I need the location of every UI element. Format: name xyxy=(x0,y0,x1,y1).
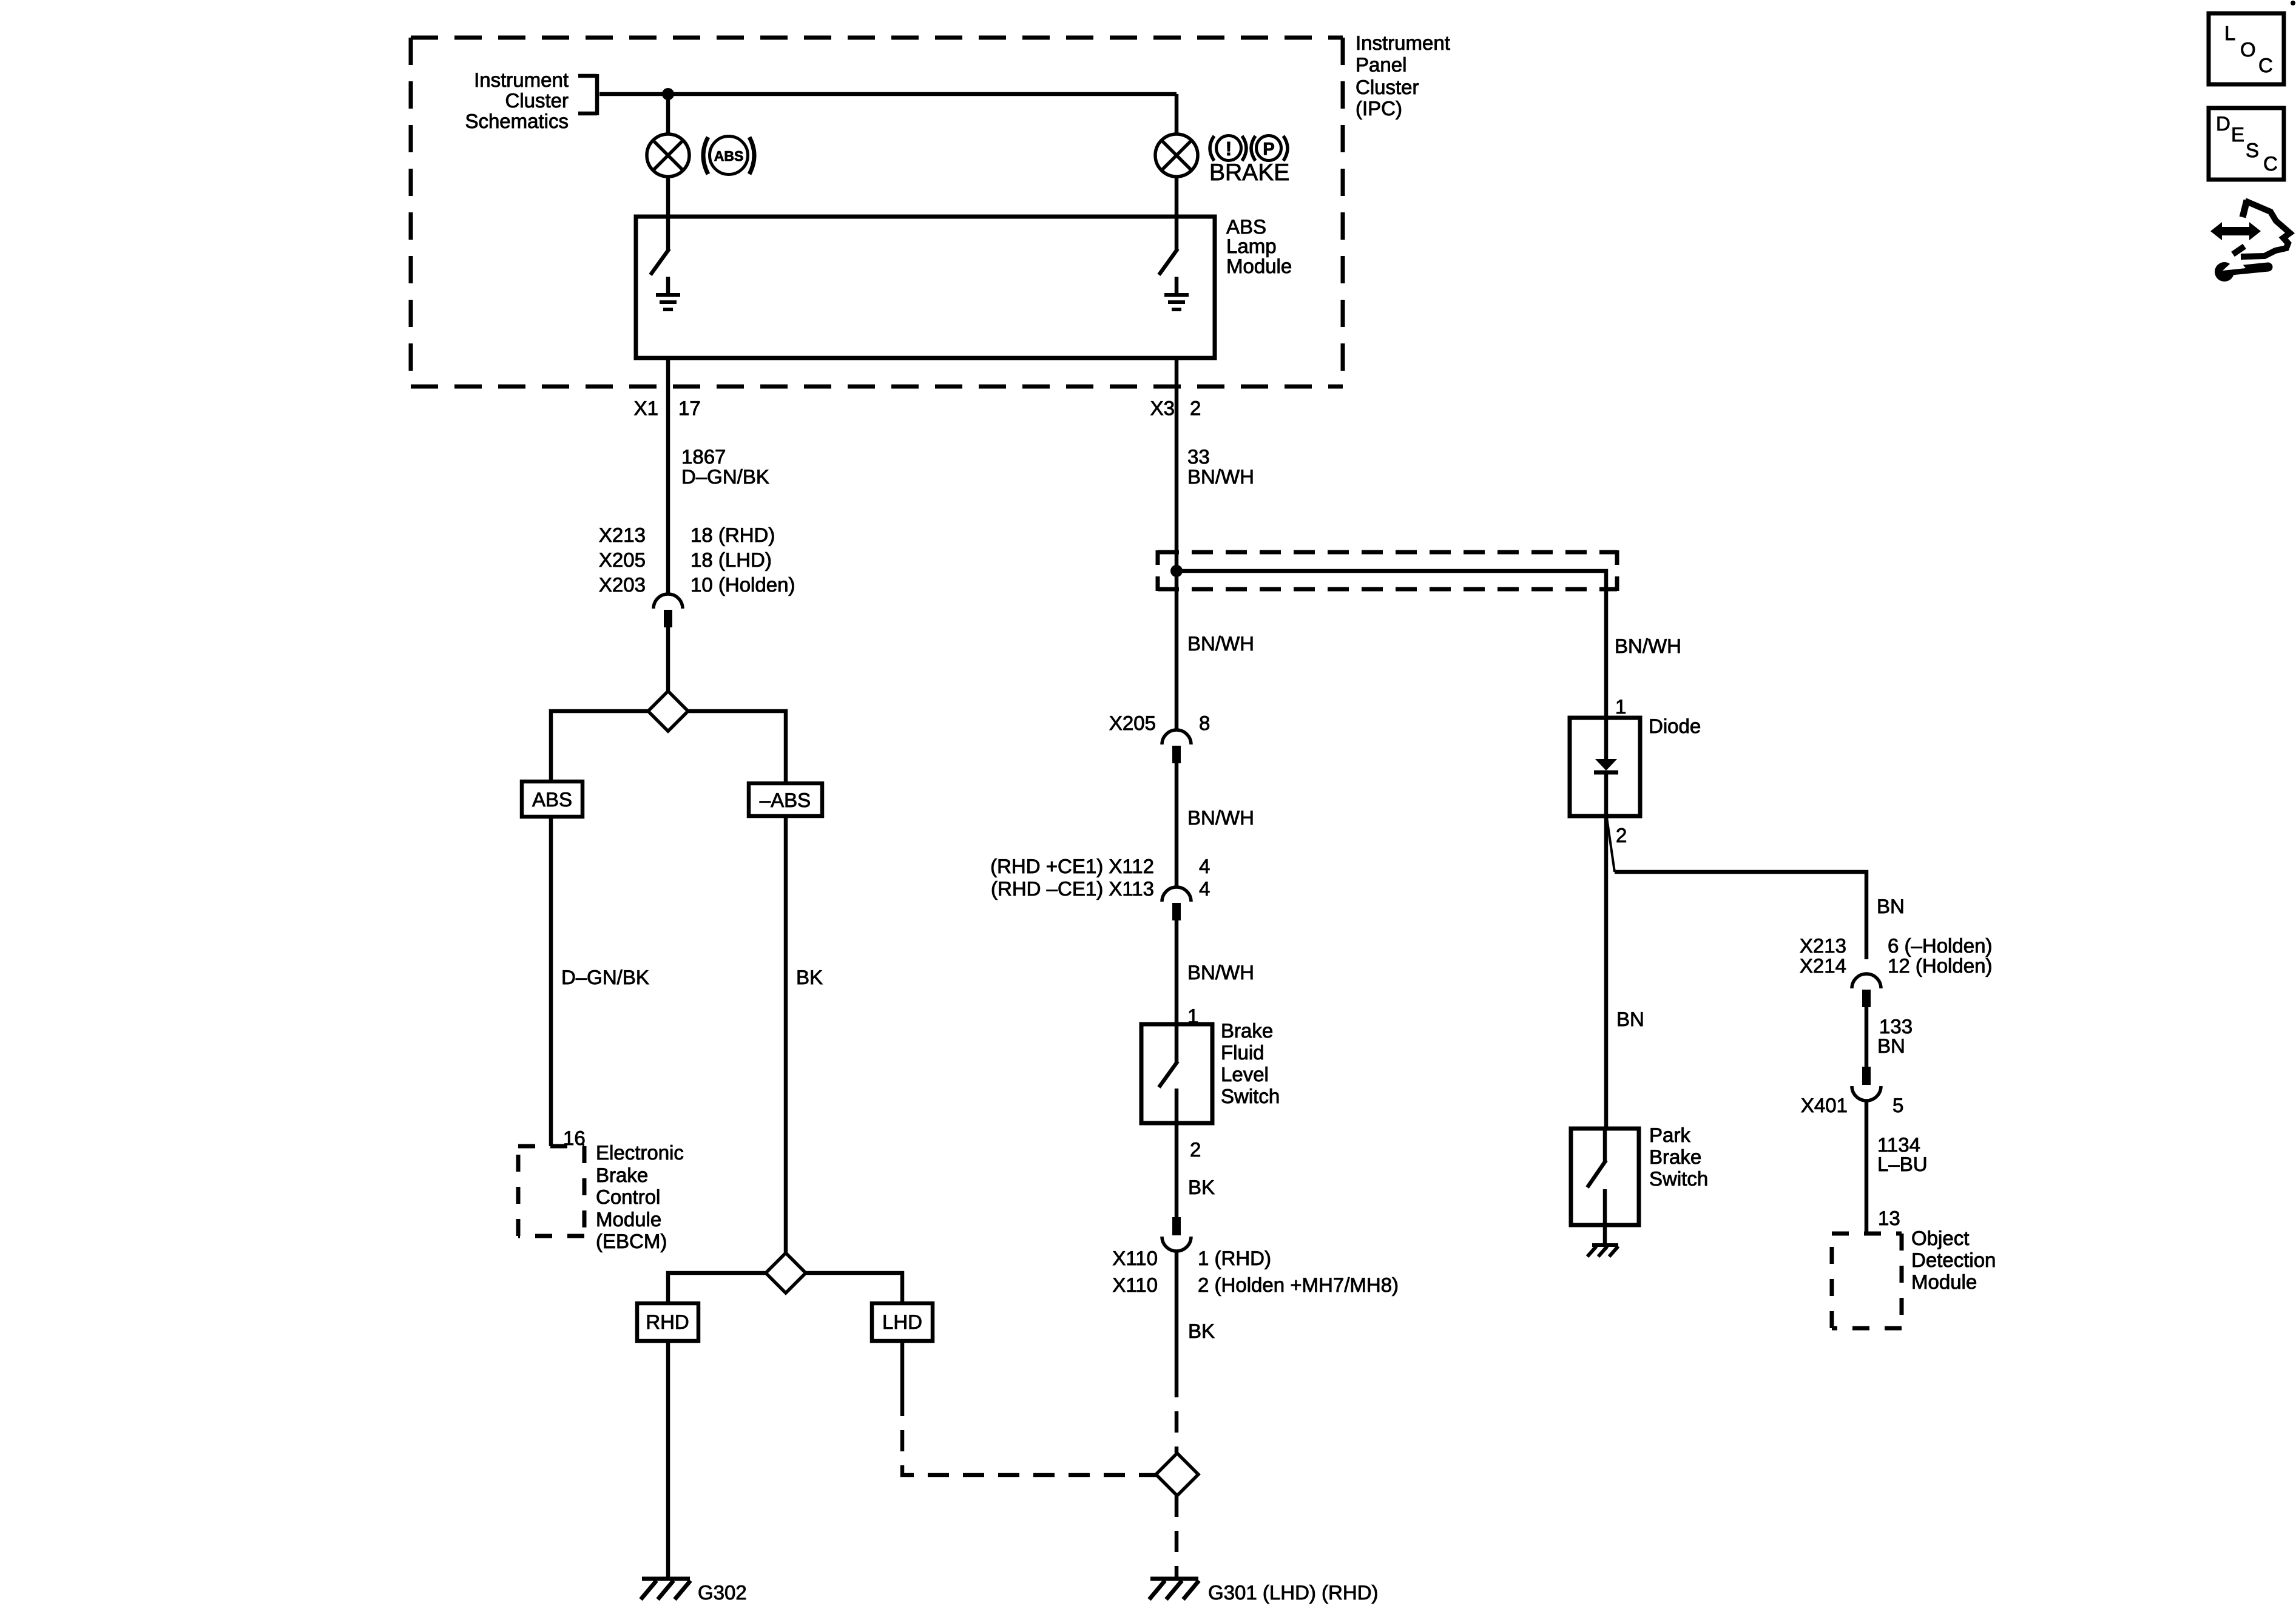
svg-text:BN/WH: BN/WH xyxy=(1615,635,1681,657)
wire through diode box xyxy=(1604,718,1609,759)
Instrument Cluster Schematics bracket xyxy=(578,74,597,115)
connector X213/X205/X203 (arc + pin) xyxy=(653,594,683,609)
pin label X1 17 xyxy=(634,397,701,419)
wrench icon xyxy=(2215,257,2268,282)
switch S1 inside module (left) xyxy=(666,217,670,250)
svg-text:16: 16 xyxy=(563,1127,586,1149)
connector labels X213/X214 pins 6/12 xyxy=(1800,934,1993,977)
svg-text:D: D xyxy=(2216,112,2230,135)
wire label 133 BN xyxy=(1877,1015,1913,1057)
ABS telltale icon xyxy=(703,137,754,175)
splice diamond SP3 xyxy=(1156,1453,1198,1496)
connector labels X112/X113 pin 4/4 xyxy=(990,855,1210,900)
svg-text:C: C xyxy=(2258,54,2273,76)
svg-text:1: 1 xyxy=(1187,1005,1198,1027)
connector X401 (pin above cup) xyxy=(1862,1067,1871,1085)
wire label 33 BN/WH xyxy=(1187,445,1254,488)
-ABS option box xyxy=(749,783,822,816)
svg-text:BK: BK xyxy=(796,966,823,988)
diode symbol xyxy=(1595,759,1617,771)
connector label X205 pin 8 xyxy=(1109,712,1210,734)
svg-text:RHD: RHD xyxy=(646,1311,689,1333)
wire: X110 down, then dashed to SP3 xyxy=(1175,1251,1179,1376)
svg-text:Brake: Brake xyxy=(1649,1146,1701,1168)
svg-text:Detection: Detection xyxy=(1911,1249,1996,1271)
svg-text:ABS: ABS xyxy=(532,788,572,811)
ground under park brake switch (chassis) xyxy=(1592,1243,1618,1247)
svg-text:12 (Holden): 12 (Holden) xyxy=(1888,954,1992,977)
switch S2 inside module (right) xyxy=(1175,217,1179,250)
Object Detection Module dashed box xyxy=(1832,1234,1902,1328)
svg-text:X205: X205 xyxy=(1109,712,1156,734)
svg-text:X203: X203 xyxy=(599,573,646,596)
ground G301 (chassis) xyxy=(1150,1577,1198,1581)
svg-text:Electronic: Electronic xyxy=(596,1141,684,1164)
svg-text:Cluster: Cluster xyxy=(505,89,569,112)
svg-text:ABS: ABS xyxy=(714,148,744,164)
park brake telltale (P) xyxy=(1251,136,1288,161)
wire: jog from diode to BN branch xyxy=(1607,817,1615,872)
svg-text:BK: BK xyxy=(1188,1176,1215,1198)
connector labels X110 pins 1/2 xyxy=(1112,1247,1399,1296)
wire: junction down to X205 connector xyxy=(1175,571,1179,730)
splice diamond SP2 xyxy=(766,1253,806,1293)
wire: BN branch to right column xyxy=(1615,872,1866,959)
svg-text:8: 8 xyxy=(1199,712,1210,734)
svg-text:2 (Holden +MH7/MH8): 2 (Holden +MH7/MH8) xyxy=(1198,1274,1399,1296)
text: Object Detection Module label xyxy=(1911,1227,1996,1293)
wire: junction to diode column xyxy=(1177,571,1606,718)
svg-text:Lamp: Lamp xyxy=(1226,235,1277,257)
wire label 1867 D-GN/BK xyxy=(681,445,769,488)
node: junction dot xyxy=(1170,565,1183,577)
text: ABS Lamp Module label xyxy=(1226,215,1292,277)
lamp L1 (ABS indicator bulb) xyxy=(647,134,689,177)
wire: module X1-17 down to connector xyxy=(666,358,670,594)
svg-text:Brake: Brake xyxy=(596,1164,648,1186)
LOC nav box xyxy=(2209,13,2284,84)
svg-text:13: 13 xyxy=(1878,1207,1900,1229)
svg-text:4: 4 xyxy=(1199,877,1210,900)
svg-text:BN: BN xyxy=(1877,1035,1905,1057)
svg-text:2: 2 xyxy=(1616,824,1627,846)
svg-text:X214: X214 xyxy=(1800,954,1846,977)
splice diamond SP1 xyxy=(648,691,688,731)
svg-text:O: O xyxy=(2240,38,2256,61)
svg-text:Object: Object xyxy=(1911,1227,1969,1249)
svg-text:(IPC): (IPC) xyxy=(1356,97,1402,120)
connector labels X213/X205/X203 with pins 18/18/10 xyxy=(599,524,795,596)
node: junction dot at left lamp column xyxy=(662,88,674,100)
svg-text:BK: BK xyxy=(1188,1320,1215,1342)
svg-text:BN/WH: BN/WH xyxy=(1187,465,1254,488)
svg-text:(EBCM): (EBCM) xyxy=(596,1230,667,1252)
wire: SP2 right to LHD xyxy=(806,1273,902,1303)
wire: BFLS pin2 down to X110 xyxy=(1175,1123,1179,1217)
svg-text:D–GN/BK: D–GN/BK xyxy=(681,465,769,488)
wire: bracket to right lamp column (top feed) xyxy=(599,92,1177,96)
wire: diode pin2 down to park brake switch xyxy=(1604,816,1609,1129)
wire: X205 to X112/X113 connector xyxy=(1175,763,1179,887)
connector X110 (pin above cup) xyxy=(1172,1217,1181,1235)
svg-text:L–BU: L–BU xyxy=(1877,1153,1928,1175)
svg-text:2: 2 xyxy=(1190,1138,1201,1161)
wire: to X401 connector xyxy=(1865,1007,1869,1067)
text: Electronic Brake Control Module (EBCM) label xyxy=(596,1141,684,1252)
svg-text:X213: X213 xyxy=(599,524,646,546)
svg-text:5: 5 xyxy=(1893,1094,1903,1116)
svg-text:1: 1 xyxy=(1615,695,1626,718)
ABS option box xyxy=(522,781,582,817)
connector X213/X214 (arc + pin) xyxy=(1852,974,1881,988)
svg-text:X110: X110 xyxy=(1112,1247,1158,1269)
text: Instrument Cluster Schematics title xyxy=(465,69,569,132)
EBCM dashed box xyxy=(518,1146,584,1236)
Diode box D1 xyxy=(1570,718,1640,816)
svg-text:(RHD +CE1) X112: (RHD +CE1) X112 xyxy=(990,855,1154,877)
svg-text:BRAKE: BRAKE xyxy=(1209,160,1289,186)
text: Park Brake Switch label xyxy=(1649,1124,1708,1190)
wire: module X3-2 down to dashed junction box xyxy=(1175,358,1179,571)
navigate icon (double arrow + part outline) xyxy=(2210,200,2290,257)
wire: right lamp to module xyxy=(1175,177,1179,217)
ABS Lamp Module box U1 xyxy=(636,217,1215,358)
svg-text:Control: Control xyxy=(596,1186,660,1208)
svg-text:BN: BN xyxy=(1616,1008,1644,1030)
switch S3 inside xyxy=(1175,1024,1179,1062)
svg-text:Level: Level xyxy=(1221,1063,1269,1085)
svg-text:Fluid: Fluid xyxy=(1221,1041,1264,1064)
pin label X3 2 xyxy=(1150,397,1201,419)
svg-text:1 (RHD): 1 (RHD) xyxy=(1198,1247,1271,1269)
ground (earth) inside module right xyxy=(1175,277,1179,294)
ground (earth) inside module left xyxy=(666,277,670,294)
svg-text:X401: X401 xyxy=(1801,1094,1848,1116)
brake warning telltale (!) xyxy=(1210,136,1246,161)
RHD option box xyxy=(637,1303,698,1341)
svg-text:–ABS: –ABS xyxy=(760,789,811,811)
svg-text:C: C xyxy=(2263,152,2278,175)
svg-text:X1: X1 xyxy=(634,397,658,419)
svg-text:Schematics: Schematics xyxy=(465,110,569,132)
svg-text:6 (–Holden): 6 (–Holden) xyxy=(1888,934,1992,957)
wire: LHD down (solid then dashed) xyxy=(900,1341,905,1395)
svg-text:G301 (LHD) (RHD): G301 (LHD) (RHD) xyxy=(1208,1581,1379,1604)
dashed in-line harness box xyxy=(1158,552,1617,589)
svg-text:Module: Module xyxy=(1226,255,1292,277)
wire: left lamp to module xyxy=(666,177,670,217)
svg-text:!: ! xyxy=(1226,138,1232,160)
svg-text:X213: X213 xyxy=(1800,934,1846,957)
page artifacts xyxy=(2291,1,2295,5)
svg-text:18 (RHD): 18 (RHD) xyxy=(690,524,775,546)
wire: SP2 left to RHD xyxy=(668,1273,766,1303)
wire: drop to right lamp xyxy=(1175,94,1179,135)
wire: RHD to ground G302 xyxy=(666,1341,670,1578)
svg-text:S: S xyxy=(2246,139,2259,161)
svg-text:Brake: Brake xyxy=(1221,1019,1273,1042)
wire: -ABS box to diamond SP2 xyxy=(784,816,788,1253)
DESC nav box xyxy=(2209,108,2284,180)
switch S4 inside xyxy=(1603,1129,1607,1161)
svg-text:4: 4 xyxy=(1199,855,1210,877)
svg-text:BN/WH: BN/WH xyxy=(1187,961,1254,984)
wire: diamond left branch xyxy=(551,711,648,781)
text: Brake Fluid Level Switch label xyxy=(1221,1019,1280,1107)
wire: diamond right branch xyxy=(688,711,786,783)
svg-text:Park: Park xyxy=(1649,1124,1690,1146)
wire: connector to brake fluid level switch xyxy=(1175,920,1179,1026)
svg-text:Diode: Diode xyxy=(1649,715,1701,737)
svg-text:BN/WH: BN/WH xyxy=(1187,632,1254,655)
svg-text:Switch: Switch xyxy=(1221,1085,1280,1107)
ground G302 (chassis) xyxy=(642,1577,690,1581)
svg-text:Module: Module xyxy=(1911,1271,1977,1293)
svg-text:P: P xyxy=(1263,140,1274,159)
svg-text:18 (LHD): 18 (LHD) xyxy=(690,549,772,571)
svg-text:G302: G302 xyxy=(698,1581,747,1604)
wire: X401 to Object Detection Module xyxy=(1865,1101,1869,1234)
lamp L2 (BRAKE indicator bulb) xyxy=(1155,134,1198,177)
svg-text:D–GN/BK: D–GN/BK xyxy=(561,966,649,988)
svg-text:33: 33 xyxy=(1187,445,1210,468)
svg-text:E: E xyxy=(2231,123,2244,146)
svg-text:Instrument: Instrument xyxy=(474,69,569,91)
svg-text:BN: BN xyxy=(1877,895,1905,917)
svg-text:X205: X205 xyxy=(599,549,646,571)
wire: SP3 down dashed to G301 xyxy=(1175,1496,1179,1578)
svg-text:Switch: Switch xyxy=(1649,1167,1708,1190)
connector X112/X113 xyxy=(1162,887,1191,902)
IPC dashed boundary box xyxy=(411,38,1343,387)
svg-text:10 (Holden): 10 (Holden) xyxy=(690,573,795,596)
wire label 1134 L-BU xyxy=(1877,1133,1928,1175)
svg-text:L: L xyxy=(2224,22,2235,44)
svg-text:X110: X110 xyxy=(1112,1274,1158,1296)
connector label X401 pin 5 xyxy=(1801,1094,1903,1116)
svg-text:LHD: LHD xyxy=(882,1311,922,1333)
Brake Fluid Level Switch box xyxy=(1141,1024,1212,1123)
svg-text:X3: X3 xyxy=(1150,397,1175,419)
svg-text:Panel: Panel xyxy=(1356,53,1406,76)
wire: drop to left lamp xyxy=(666,94,670,135)
Park Brake Switch box xyxy=(1571,1129,1639,1225)
svg-text:Cluster: Cluster xyxy=(1356,76,1419,98)
svg-text:(RHD –CE1) X113: (RHD –CE1) X113 xyxy=(991,877,1154,900)
svg-text:BN/WH: BN/WH xyxy=(1187,806,1254,829)
wire: ABS box to EBCM xyxy=(549,817,553,1146)
LHD option box xyxy=(872,1303,933,1341)
svg-text:Module: Module xyxy=(596,1208,661,1230)
text: Instrument Panel Cluster (IPC) label xyxy=(1356,32,1450,120)
svg-text:2: 2 xyxy=(1190,397,1201,419)
svg-text:Instrument: Instrument xyxy=(1356,32,1450,54)
wire: connector to splice diamond xyxy=(666,627,670,691)
connector X205-8 xyxy=(1162,730,1191,744)
svg-text:1867: 1867 xyxy=(681,445,726,468)
svg-text:17: 17 xyxy=(678,397,701,419)
